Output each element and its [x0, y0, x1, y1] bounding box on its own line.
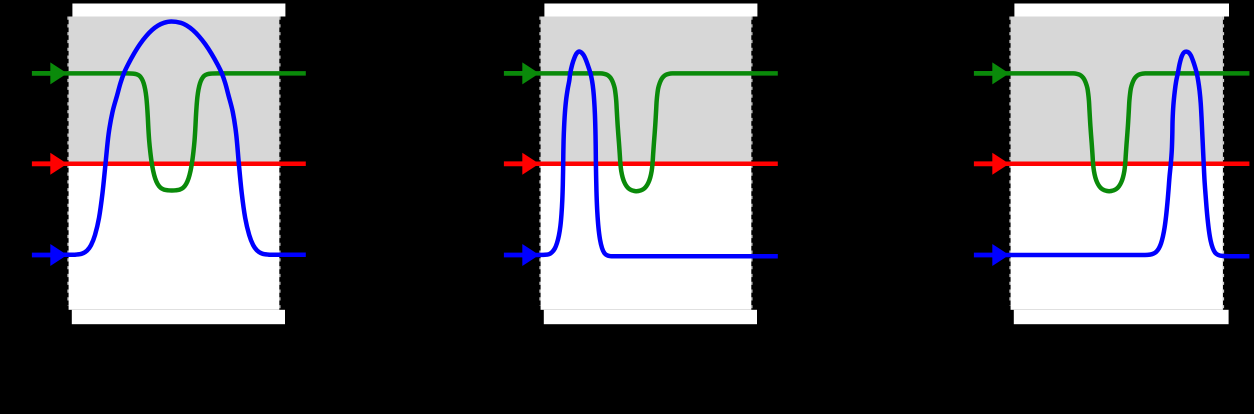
panel 2 red field line: [522, 162, 778, 167]
panel 2 blue input arrow: [504, 253, 524, 258]
panel 2 green field curve with notch: [522, 73, 778, 191]
panel 1 red input arrow: [32, 161, 52, 166]
panel 2 bottom white strip: [544, 310, 757, 324]
panel 3 blue input arrow: [974, 253, 994, 258]
panel 3 left dashed slab edge: [1009, 17, 1011, 306]
panel 1 blue pulse curve: [50, 22, 305, 255]
panel 1 green input arrow: [32, 71, 52, 76]
panel 1 left dashed slab edge: [67, 17, 69, 306]
panel 1 bottom white strip: [72, 310, 285, 324]
panel 1 blue input arrow: [32, 253, 52, 258]
panel 3 blue pulse curve: [992, 52, 1249, 257]
panel 3 gray slab upper half (medium): [1011, 17, 1223, 164]
panel 3 top white strip: [1014, 4, 1229, 17]
panel 3 red field line: [992, 162, 1249, 167]
panel 1 right dashed slab edge: [279, 17, 281, 310]
panel 2 left dashed slab edge: [539, 17, 541, 306]
panel 3 green input arrow: [974, 71, 994, 76]
panel 1 top white strip: [72, 4, 285, 17]
panel 3 white slab lower half: [1011, 164, 1223, 310]
panel 2 blue pulse curve: [522, 52, 778, 257]
panel 2 right dashed slab edge: [751, 17, 753, 310]
panel 2 green input arrow: [504, 71, 524, 76]
panel 2 gray slab upper half (medium): [541, 17, 752, 164]
panel 3 green field curve with notch: [992, 73, 1249, 191]
panel 3 right dashed slab edge: [1223, 17, 1225, 310]
panel 1 green field curve with notch: [50, 73, 305, 190]
panel 2 red input arrow: [504, 161, 524, 166]
panel 1 gray slab upper half (medium): [69, 17, 280, 164]
panel 3 bottom white strip: [1014, 310, 1229, 324]
panel 1 red field line: [50, 162, 305, 167]
panel 2 top white strip: [544, 4, 757, 17]
panel 2 white slab lower half: [541, 164, 752, 310]
panel 1 white slab lower half: [69, 164, 280, 310]
panel 3 red input arrow: [974, 161, 994, 166]
